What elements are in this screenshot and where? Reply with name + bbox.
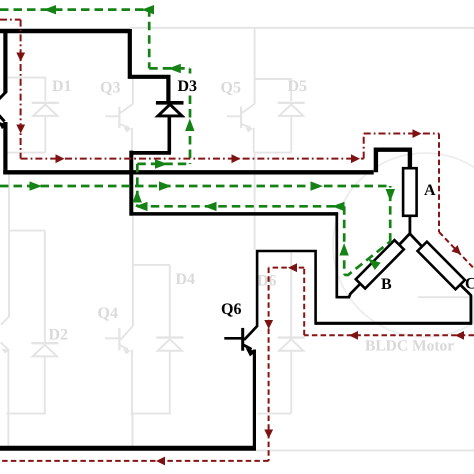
- wire rail jog down to D3 branch: [128, 29, 169, 101]
- svg-text:D5: D5: [288, 78, 308, 95]
- wire phase-A bus: [3, 170, 374, 174]
- wire D1 top branch: [7, 78, 45, 101]
- svg-text:C: C: [465, 276, 474, 293]
- red arrow down-right on C: [451, 245, 464, 258]
- red drop x439 beside winding A: [438, 134, 440, 233]
- wire leg1 mid-to-lower: [8, 174, 10, 230]
- green arrow up x344: [339, 243, 348, 256]
- green arrow right y164: [155, 159, 168, 168]
- wire leg3 midpoint: [255, 152, 292, 154]
- red run y133.5: [364, 133, 439, 135]
- svg-text:A: A: [424, 182, 436, 199]
- wire +DC top rail (active): [0, 29, 130, 33]
- red drop x20.6: [20, 20, 22, 159]
- svg-text:Q4: Q4: [98, 305, 118, 322]
- svg-text:D3: D3: [178, 78, 198, 95]
- wire phase-C notch to Q6: [257, 251, 316, 326]
- motor outline circle: [333, 153, 474, 337]
- red run y158.6: [21, 158, 364, 160]
- green short run y164: [137, 163, 190, 166]
- green arrow right y186 a: [30, 181, 43, 190]
- green feed y186: [0, 185, 390, 188]
- wire phase-B vertical: [335, 213, 338, 299]
- red arrow right y158 b: [232, 154, 241, 163]
- wire winding A lower lead: [408, 216, 411, 235]
- gray bottom rail (-DC bus continuation, faded): [256, 449, 474, 451]
- diode D5: [278, 103, 305, 153]
- svg-text:B: B: [381, 276, 392, 293]
- wire winding C lower lead: [460, 285, 471, 324]
- red drop x268.6 through Q6: [268, 268, 270, 461]
- diode D6: [278, 252, 305, 413]
- green jog above D3: [149, 67, 190, 70]
- green arrow up x137: [133, 190, 142, 203]
- red arrow left y335 b: [349, 331, 358, 340]
- wire leg3 bottom join: [258, 413, 292, 415]
- node star point: [399, 233, 422, 246]
- transistor Q1 (active, cropped at left edge): [0, 30, 7, 172]
- red arrow left y267: [288, 263, 297, 272]
- wire leg1 bottom join: [6, 413, 46, 415]
- green arrow left x141: [142, 5, 155, 14]
- wire leg1 midpoint: [7, 152, 45, 154]
- svg-text:Q5: Q5: [221, 80, 241, 97]
- wire phase-A riser to winding A: [374, 148, 410, 173]
- wire -DC bottom rail (active): [0, 446, 256, 451]
- green riser x149: [148, 8, 151, 68]
- svg-text:BLDC Motor: BLDC Motor: [365, 338, 454, 355]
- green drop x390: [389, 186, 392, 242]
- green arrow up x190: [185, 119, 194, 132]
- green arrow left x43: [44, 5, 57, 14]
- red arrow left y335 a: [455, 331, 464, 340]
- green freewheel path top exit: [0, 8, 149, 11]
- red arrow down x20 b: [16, 125, 25, 134]
- red arrow right y133: [413, 129, 422, 138]
- red jog y267.6: [269, 267, 305, 269]
- green arrow right y186 c: [311, 181, 324, 190]
- green arrow left y206 b: [204, 202, 217, 211]
- wire phase-B to winding B: [337, 283, 361, 297]
- green arrow left y68: [168, 64, 181, 73]
- diode D4: [156, 265, 183, 413]
- svg-text:D4: D4: [176, 271, 196, 288]
- green return y206: [137, 205, 344, 208]
- diode D3: [156, 103, 184, 153]
- red arrow down x20 a: [16, 53, 25, 62]
- red main path entry top-left: [0, 19, 21, 21]
- diode D1: [32, 103, 59, 153]
- red arrow left y461: [156, 457, 165, 466]
- transistor Q2 (faded, cropped at left edge): [1, 231, 10, 414]
- green winding-B diagonal: [344, 242, 390, 275]
- wire faded stub right edge: [418, 296, 474, 298]
- wire phase-B horizontal: [130, 212, 338, 216]
- winding B: [356, 240, 404, 288]
- green riser x344: [343, 206, 346, 274]
- svg-text:D1: D1: [52, 78, 72, 95]
- red arrow right y158 c: [351, 154, 360, 163]
- winding C: [418, 242, 465, 290]
- gray top rail (+DC bus, faded): [130, 27, 474, 29]
- winding A: [403, 168, 417, 216]
- transistor Q4 (faded): [105, 216, 133, 413]
- red jog up x363.7: [363, 134, 365, 159]
- red arrow down x268 b: [264, 430, 273, 439]
- wire leg2 tail to rail: [132, 414, 134, 447]
- red arrow down x268 a: [264, 320, 273, 329]
- svg-text:D2: D2: [49, 327, 69, 344]
- red return y335: [304, 334, 474, 336]
- red arrow right y158 a: [56, 154, 65, 163]
- green arrow left y206 a: [135, 202, 148, 211]
- wire leg3 mid-to-lower: [254, 153, 256, 250]
- diode D2: [31, 231, 58, 414]
- svg-text:D6: D6: [257, 273, 277, 290]
- green drop beside D3: [189, 68, 192, 73]
- svg-text:Q6: Q6: [221, 301, 241, 318]
- transistor Q5 (faded): [227, 29, 255, 153]
- red diagonal along winding C: [439, 232, 474, 269]
- wire D3 anode jog: [131, 151, 171, 155]
- wire phase-C horizontal: [316, 322, 473, 325]
- wire phase-B drop (crosses bus): [129, 151, 133, 216]
- green arrow down-left on B: [365, 255, 381, 270]
- green riser x137: [136, 164, 139, 206]
- green arrow left y206 c: [332, 202, 345, 211]
- wire leg1 lower join: [9, 230, 45, 232]
- wire leg1 tail to rail: [7, 414, 9, 446]
- svg-text:Q3: Q3: [100, 80, 120, 97]
- green arrow right y186 b: [159, 181, 172, 190]
- wire leg2 bottom join: [130, 413, 171, 415]
- red bottom return y461: [0, 460, 269, 462]
- wire leg2 lower join: [133, 264, 170, 266]
- red riser x304: [303, 268, 305, 336]
- green arrow down x390: [386, 189, 395, 202]
- transistor Q3 (faded): [105, 79, 133, 151]
- transistor Q6 (active): [224, 326, 257, 447]
- wire D5 top branch: [255, 79, 292, 101]
